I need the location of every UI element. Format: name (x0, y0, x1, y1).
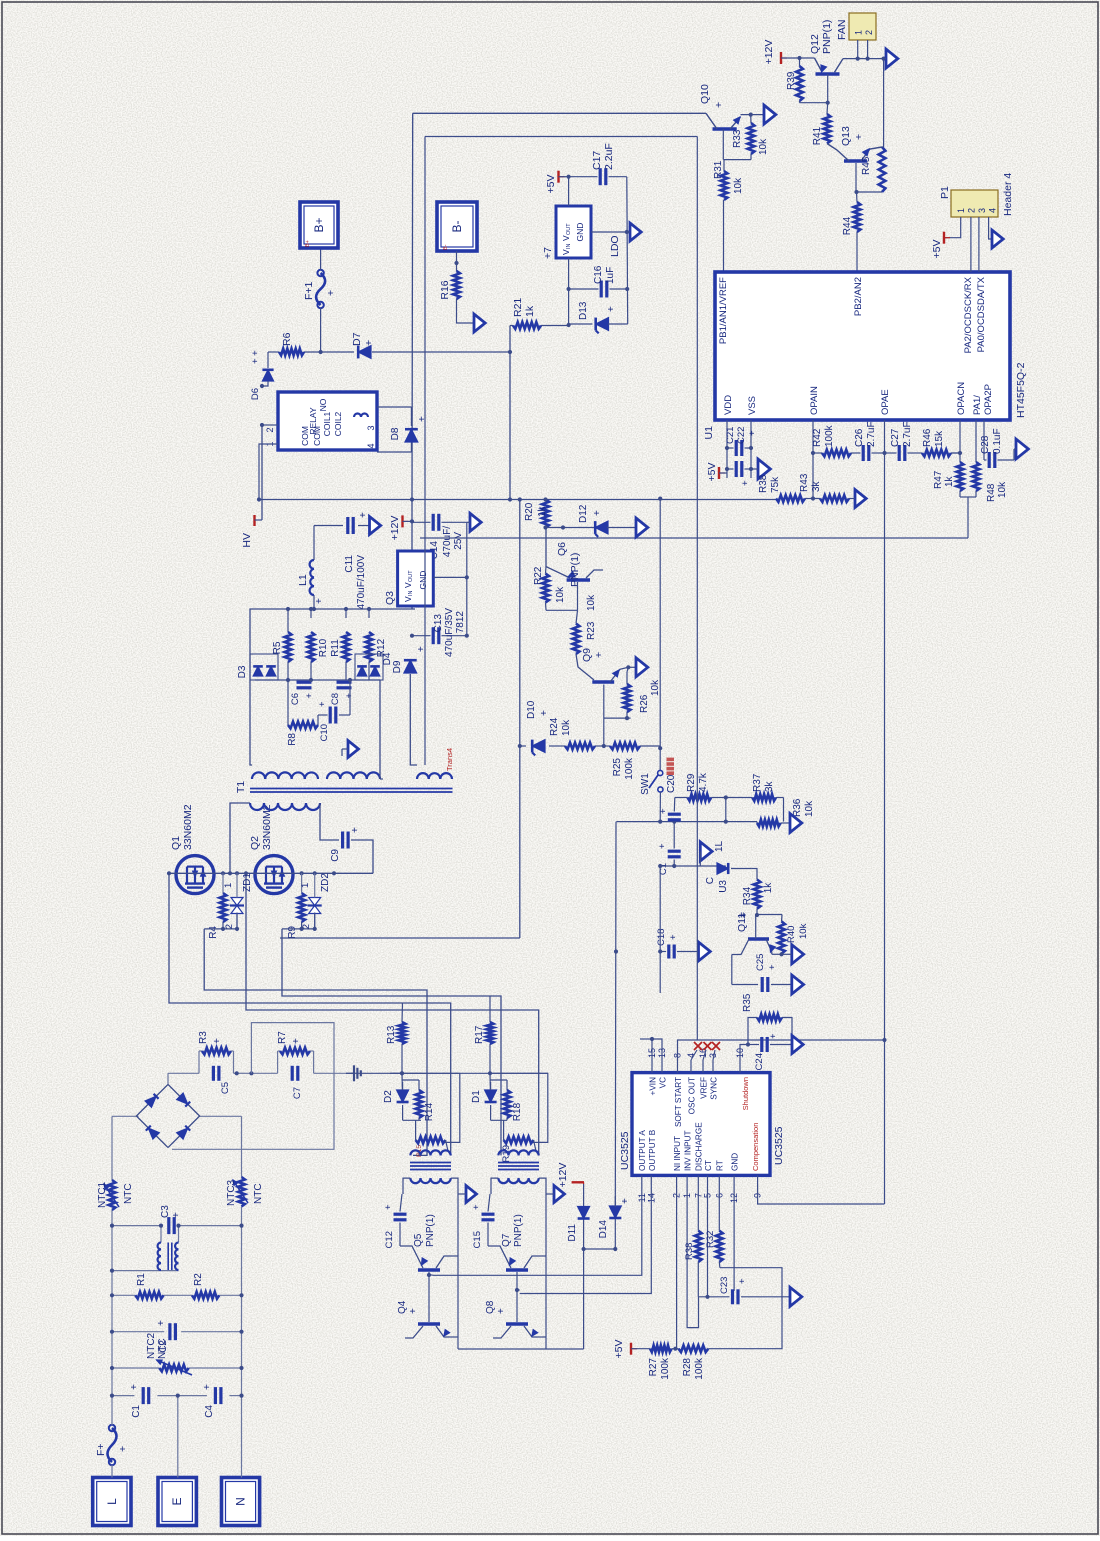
wire N rail (241, 1207, 243, 1478)
ground R36 (790, 814, 802, 833)
resistor R32 (705, 1231, 723, 1262)
capacitor C1 (657, 822, 681, 876)
thermistor NTC1 (97, 1180, 134, 1210)
transistor Q8 (485, 1300, 538, 1338)
wire choke stubs (110, 1226, 179, 1273)
svg-text:GND: GND (575, 223, 585, 242)
transistor Q11 (732, 912, 776, 955)
ground Q9 (636, 658, 648, 677)
svg-text:1k: 1k (763, 882, 774, 894)
ground secondary (342, 741, 359, 758)
thermistor NTC2 (146, 1332, 192, 1375)
wire C3 column (110, 1224, 244, 1228)
svg-text:R44: R44 (842, 216, 853, 235)
svg-text:HV: HV (241, 533, 253, 548)
capacitor C15 (471, 1194, 495, 1248)
wire +12 rail left (583, 1249, 585, 1349)
wire T1 primary bottom (320, 803, 339, 840)
capacitor C27 (885, 421, 923, 461)
transistor Q13 (827, 126, 882, 161)
diode D6 (250, 350, 274, 400)
transformer T2 (410, 1150, 451, 1183)
diode D1 (471, 1082, 497, 1103)
wire OUTPUT A route (433, 1190, 642, 1275)
svg-text:+: + (539, 710, 550, 716)
wire bus660 (658, 864, 662, 993)
wire C2 column (110, 1330, 244, 1334)
wire P1 pin1 (944, 217, 961, 238)
inductor choke L2 (158, 1243, 179, 1271)
resistor R34 (742, 869, 774, 909)
svg-text:470uF/100V: 470uF/100V (356, 555, 367, 610)
resistor R14 (402, 1080, 435, 1121)
svg-text:COIL2: COIL2 (333, 411, 343, 436)
svg-text:Q10: Q10 (699, 84, 711, 104)
svg-text:R26: R26 (639, 694, 650, 713)
resistor R10 (308, 609, 329, 680)
svg-text:Q12: Q12 (809, 34, 821, 54)
svg-text:33N60M2: 33N60M2 (261, 804, 273, 850)
svg-text:2: 2 (967, 208, 977, 213)
svg-text:R19: R19 (501, 1145, 512, 1162)
wire net to Q10 (413, 112, 706, 114)
wire D10 col (520, 745, 565, 747)
svg-text:RT: RT (716, 1160, 725, 1171)
pin 13r UC3525 (657, 1048, 667, 1073)
svg-text:1: 1 (956, 208, 966, 213)
svg-text:10k: 10k (586, 594, 597, 611)
svg-text:R43: R43 (799, 473, 810, 492)
pin 16r UC3525 (698, 1048, 708, 1073)
ground D12 (636, 518, 648, 537)
resistor R21 (512, 298, 541, 329)
wire OUTPUT B route (520, 1190, 652, 1294)
svg-text:Q13: Q13 (840, 126, 852, 146)
svg-text:10k: 10k (798, 923, 809, 939)
svg-text:C1: C1 (131, 1405, 142, 1418)
svg-text:+: + (768, 1033, 779, 1039)
wire pin10 route (740, 1042, 750, 1060)
power +5V r27 (613, 1340, 650, 1359)
svg-text:R31: R31 (713, 160, 724, 179)
ground Q10 (764, 105, 776, 124)
svg-text:1: 1 (223, 883, 234, 888)
power +5V ldo (545, 171, 569, 194)
svg-text:Compensation: Compensation (751, 1123, 760, 1171)
wire INV route (687, 1190, 698, 1328)
wire emitter rail (458, 1348, 584, 1350)
svg-text:L: L (105, 1498, 119, 1505)
wire r38 left (698, 1262, 720, 1297)
svg-text:4.7k: 4.7k (698, 772, 709, 792)
svg-text:B-: B- (450, 220, 464, 232)
svg-text:10k: 10k (758, 138, 769, 155)
svg-text:OPAIN: OPAIN (809, 386, 820, 415)
svg-text:+: + (713, 102, 725, 108)
resistor R1 (135, 1273, 163, 1299)
svg-text:C12: C12 (384, 1231, 395, 1248)
svg-text:VDD: VDD (723, 395, 734, 415)
resistor R38b (758, 474, 805, 502)
svg-text:3: 3 (366, 425, 376, 430)
svg-text:PA2/OCDSCK/RX: PA2/OCDSCK/RX (963, 276, 974, 353)
svg-text:10k: 10k (555, 586, 566, 603)
svg-text:C27: C27 (890, 428, 901, 447)
wire Q9 collector (604, 685, 631, 721)
resistor R40 (756, 915, 809, 955)
wire Q13 collector (854, 163, 858, 194)
svg-text:R38: R38 (684, 1243, 695, 1260)
fuse F+1 (303, 270, 337, 308)
capacitor C7 (292, 1066, 303, 1099)
capacitor C6 (290, 682, 315, 705)
svg-text:2.7uF: 2.7uF (902, 421, 913, 447)
wire Q2 source row (282, 913, 317, 932)
svg-text:C17: C17 (591, 151, 603, 170)
power HV (241, 515, 262, 548)
resistor R36 (757, 798, 815, 826)
svg-text:NI INPUT: NI INPUT (673, 1136, 682, 1171)
diode U3 (705, 863, 751, 893)
capacitor C5 (213, 1066, 231, 1094)
zener ZD1 (223, 873, 253, 930)
resistor R5 (272, 609, 291, 680)
svg-text:Header 4: Header 4 (1002, 173, 1014, 216)
svg-text:ZD1: ZD1 (242, 873, 253, 892)
svg-text:R27: R27 (648, 1358, 659, 1377)
svg-text:+: + (304, 693, 315, 699)
wire P1 pin2 (970, 217, 972, 272)
wire ch1 base (427, 1272, 433, 1322)
svg-text:C7: C7 (292, 1087, 303, 1099)
svg-text:1: 1 (854, 30, 864, 35)
svg-text:GND: GND (418, 571, 428, 590)
ic U1 HT45F5Q-2 (703, 272, 1027, 439)
wire VDD rail (725, 420, 729, 478)
wire Q12 base (826, 74, 830, 105)
svg-text:Q9: Q9 (581, 648, 593, 662)
wire R21 (510, 325, 569, 327)
wire P1 pin4 (989, 217, 992, 239)
svg-text:C6: C6 (290, 693, 301, 705)
svg-text:C: C (705, 877, 716, 884)
wire relay pin4 (377, 451, 411, 453)
svg-text:+: + (657, 843, 668, 849)
svg-text:100k: 100k (694, 1357, 705, 1380)
resistor R44 (842, 192, 860, 272)
svg-text:B+: B+ (312, 217, 326, 232)
ground C11 (370, 517, 381, 535)
wire GND route (733, 1190, 735, 1291)
terminal B- (437, 202, 477, 251)
svg-text:R45: R45 (861, 156, 872, 175)
wire cross rail (518, 500, 522, 939)
svg-text:UC3525: UC3525 (773, 1126, 785, 1165)
transistor Q10 (699, 84, 741, 129)
svg-text:Q3: Q3 (384, 591, 396, 605)
svg-text:OSC OUT: OSC OUT (688, 1077, 697, 1114)
svg-text:R13: R13 (386, 1025, 397, 1044)
wire d11 wire (582, 1184, 586, 1251)
diode D9 (392, 646, 427, 673)
wire L1 (313, 526, 315, 610)
svg-text:100k: 100k (824, 424, 835, 447)
resistor R20 (524, 497, 549, 527)
ground fan (884, 49, 898, 68)
svg-text:C9: C9 (330, 849, 341, 862)
resistor R28 (672, 1345, 709, 1379)
svg-text:2: 2 (265, 427, 275, 432)
svg-text:C10: C10 (319, 724, 330, 741)
svg-text:2.7uF: 2.7uF (866, 421, 877, 447)
svg-text:100k: 100k (624, 757, 635, 780)
svg-text:+: + (325, 290, 337, 296)
svg-text:C11: C11 (344, 555, 355, 573)
svg-text:+: + (363, 340, 375, 346)
svg-text:+7: +7 (542, 247, 554, 259)
resistor R29 (675, 772, 726, 801)
ic U2 UC3525 (619, 1073, 785, 1176)
svg-text:PNP(1): PNP(1) (513, 1214, 524, 1247)
resistor R17 (474, 996, 493, 1073)
wire T1 primary top (228, 803, 250, 875)
wire ch1 loop (402, 1073, 460, 1142)
svg-text:R35: R35 (742, 993, 753, 1012)
diode D8 (390, 416, 428, 442)
svg-text:+: + (740, 480, 751, 486)
wire OPAIN (805, 420, 820, 501)
power +12V a (389, 515, 414, 540)
wire ch2 row (491, 1105, 507, 1120)
wire gnd line (591, 177, 629, 324)
wire R21 feed (508, 326, 512, 500)
ground R40 (779, 945, 803, 964)
wire fan low (882, 57, 886, 148)
ground R43 (849, 490, 866, 508)
svg-text:100k: 100k (660, 1357, 671, 1380)
ground P1 (992, 230, 1003, 248)
wire d row (584, 1248, 616, 1250)
wire pin9 route (758, 1190, 885, 1204)
svg-text:+: + (767, 964, 778, 970)
wire Q6 base (546, 582, 578, 610)
svg-text:NTC2: NTC2 (146, 1332, 157, 1359)
resistor R9 (287, 873, 305, 938)
capacitor C8 (330, 682, 355, 705)
svg-text:D6: D6 (250, 388, 261, 400)
pin 7 UC3525 (693, 1175, 703, 1198)
wire OPACN (951, 420, 962, 462)
transistor Q7 (488, 1214, 540, 1270)
capacitor C24 (748, 1033, 792, 1070)
terminal E (158, 1478, 196, 1526)
wire node A (543, 525, 594, 529)
svg-text:Q7: Q7 (501, 1233, 512, 1247)
connector P1 Header4 (939, 173, 1014, 217)
wire Q10 emitter (741, 113, 765, 124)
resistor R47 (933, 462, 963, 491)
resistor R23 (573, 594, 597, 654)
wire sw to bus (658, 792, 662, 824)
svg-text:+5V: +5V (706, 463, 718, 482)
capacitor C13 (410, 627, 467, 644)
wire B- R16 (454, 251, 458, 271)
wire main rail HV (259, 497, 776, 501)
earth ground (346, 1065, 361, 1081)
svg-text:B-: B- (443, 244, 449, 250)
wire R29 node (724, 795, 728, 821)
svg-text:R18: R18 (512, 1102, 523, 1121)
svg-text:VSS: VSS (747, 396, 758, 415)
transistor Q12 (809, 20, 843, 74)
svg-text:C15: C15 (472, 1231, 483, 1248)
svg-text:C22: C22 (736, 427, 747, 444)
svg-text:F+: F+ (95, 1443, 107, 1456)
wire R24R25 (595, 745, 610, 747)
wire relay pin1 (260, 423, 278, 427)
svg-text:C13: C13 (433, 614, 444, 633)
wire P1 pin3 (978, 217, 980, 272)
svg-text:+5V: +5V (613, 1340, 625, 1359)
svg-text:1: 1 (300, 883, 311, 888)
svg-text:470uF/35V: 470uF/35V (444, 608, 455, 657)
ground C25 (792, 975, 804, 994)
svg-text:OPAE: OPAE (880, 389, 891, 415)
svg-text:IN: IN (408, 590, 414, 596)
svg-text:10k: 10k (733, 177, 744, 194)
svg-text:D9: D9 (392, 660, 403, 673)
wire OPAE (882, 420, 886, 1204)
svg-text:3k: 3k (764, 780, 775, 792)
svg-text:+: + (314, 598, 325, 604)
svg-text:T1: T1 (235, 781, 247, 793)
transistor Q6 (546, 528, 590, 588)
zener ZD2 (300, 873, 331, 930)
svg-text:R11: R11 (330, 639, 341, 657)
wire Q1 source row (204, 913, 239, 932)
svg-text:Trans4: Trans4 (445, 748, 454, 771)
transistor Q2 33N60M2 (249, 804, 293, 893)
ground 1L (700, 840, 725, 866)
resistor R41 (812, 103, 830, 145)
pin 14 UC3525 (646, 1175, 656, 1203)
capacitor C1 (129, 1384, 149, 1418)
svg-text:OUTPUT A: OUTPUT A (638, 1130, 647, 1171)
svg-text:R29: R29 (686, 773, 697, 792)
capacitor C23 (698, 1277, 790, 1305)
svg-text:U1: U1 (703, 426, 715, 440)
svg-text:OUT: OUT (408, 570, 414, 582)
svg-text:C2: C2 (158, 1340, 169, 1353)
wire Q1 source route (204, 929, 427, 1156)
svg-text:R1: R1 (136, 1273, 147, 1286)
svg-text:C25: C25 (755, 954, 766, 971)
wire R16 gnd (457, 299, 475, 323)
resistor R7 (277, 1031, 314, 1074)
svg-text:R4: R4 (208, 926, 219, 939)
svg-text:U3: U3 (718, 880, 729, 893)
svg-text:OPACN: OPACN (956, 382, 967, 415)
svg-text:+: + (117, 1446, 129, 1452)
thermistor NTC3 (226, 1177, 264, 1207)
svg-text:NO: NO (318, 398, 328, 411)
resistor R24 (549, 717, 595, 749)
svg-text:D1: D1 (471, 1090, 482, 1103)
wire R6 chain (268, 350, 510, 354)
resistor R15 (416, 1120, 451, 1157)
wire D9 left (410, 674, 417, 765)
pin 11 UC3525 (637, 1175, 647, 1202)
wire Q6 collector (586, 570, 603, 578)
svg-text:+: + (350, 827, 361, 833)
svg-text:FAN: FAN (836, 20, 848, 40)
capacitor C3 (160, 1205, 182, 1234)
wire C1/C4 column (110, 1394, 244, 1398)
resistor R37 (726, 773, 784, 821)
resistor R19 (501, 1120, 539, 1162)
svg-text:VC: VC (659, 1077, 668, 1088)
svg-text:C28: C28 (980, 435, 991, 454)
svg-text:RELAY: RELAY (308, 407, 318, 435)
svg-text:R34: R34 (742, 886, 753, 905)
svg-text:D13: D13 (578, 301, 589, 320)
pin 4r UC3525 (686, 1053, 696, 1073)
zener D12 (578, 504, 636, 537)
wire ch2 emitters (537, 1194, 546, 1349)
capacitor C17 (569, 143, 627, 185)
wire E rail (177, 1396, 179, 1478)
svg-text:C24: C24 (754, 1053, 765, 1070)
resistor R22 (533, 566, 566, 610)
svg-text:N: N (234, 1497, 248, 1506)
capacitor C14 (412, 514, 467, 531)
wire R25 SW (640, 746, 662, 770)
svg-text:+: + (658, 808, 669, 814)
bridge rectifier D5 (136, 1084, 199, 1147)
svg-text:+: + (593, 652, 605, 658)
svg-text:3k: 3k (811, 480, 822, 492)
svg-text:D10: D10 (526, 700, 537, 719)
svg-text:+: + (606, 306, 617, 312)
svg-text:+: + (736, 912, 748, 918)
nc marks (691, 1042, 720, 1060)
wire sec mid rail (255, 679, 380, 681)
wire C25 col (732, 955, 758, 985)
wire +12V node (411, 500, 413, 610)
pin 10r UC3525 (735, 1048, 745, 1073)
resistor R6 (279, 332, 304, 355)
ground U1 (751, 459, 770, 479)
label C20sw (666, 758, 677, 793)
svg-text:1k: 1k (537, 505, 548, 517)
wire relay pin2 (257, 444, 278, 502)
svg-text:R10: R10 (318, 638, 329, 657)
transistor Q5 (400, 1214, 452, 1270)
wire DC rail ext (352, 1071, 548, 1075)
resistor R48 (973, 420, 1008, 502)
resistor R2 (192, 1273, 219, 1299)
wire t3 conn (491, 1178, 546, 1194)
svg-text:R37: R37 (752, 773, 763, 792)
svg-text:R6: R6 (281, 332, 293, 346)
power +5V u1 (706, 463, 727, 482)
wire D8 link (410, 407, 412, 452)
svg-text:NTC: NTC (123, 1183, 134, 1204)
svg-text:+5V: +5V (545, 175, 557, 194)
svg-text:+: + (496, 1308, 507, 1314)
svg-text:Q1: Q1 (170, 836, 182, 850)
svg-text:NTC1: NTC1 (97, 1181, 108, 1208)
